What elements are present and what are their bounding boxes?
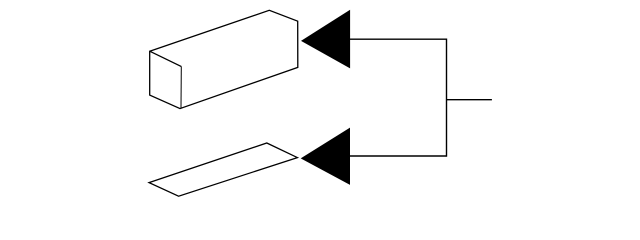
3D box (wireframe bar), silhouette outline [150, 10, 298, 108]
wire: vertical connecting segment [446, 39, 448, 157]
lower arrowhead (filled triangle pointing left at sheet) [301, 128, 350, 185]
upper arrowhead (filled triangle pointing left at box) [301, 10, 350, 69]
wire: bottom horizontal from corner to lower arrowhead [349, 155, 447, 157]
box left end cap edge D-E (vertical, appears gray) [180, 67, 182, 109]
wire: top horizontal from upper arrowhead to corner [349, 38, 447, 40]
wire: right stub [446, 99, 492, 101]
flat sheet parallelogram [149, 143, 297, 196]
box left end cap edge A-D [150, 51, 182, 66]
